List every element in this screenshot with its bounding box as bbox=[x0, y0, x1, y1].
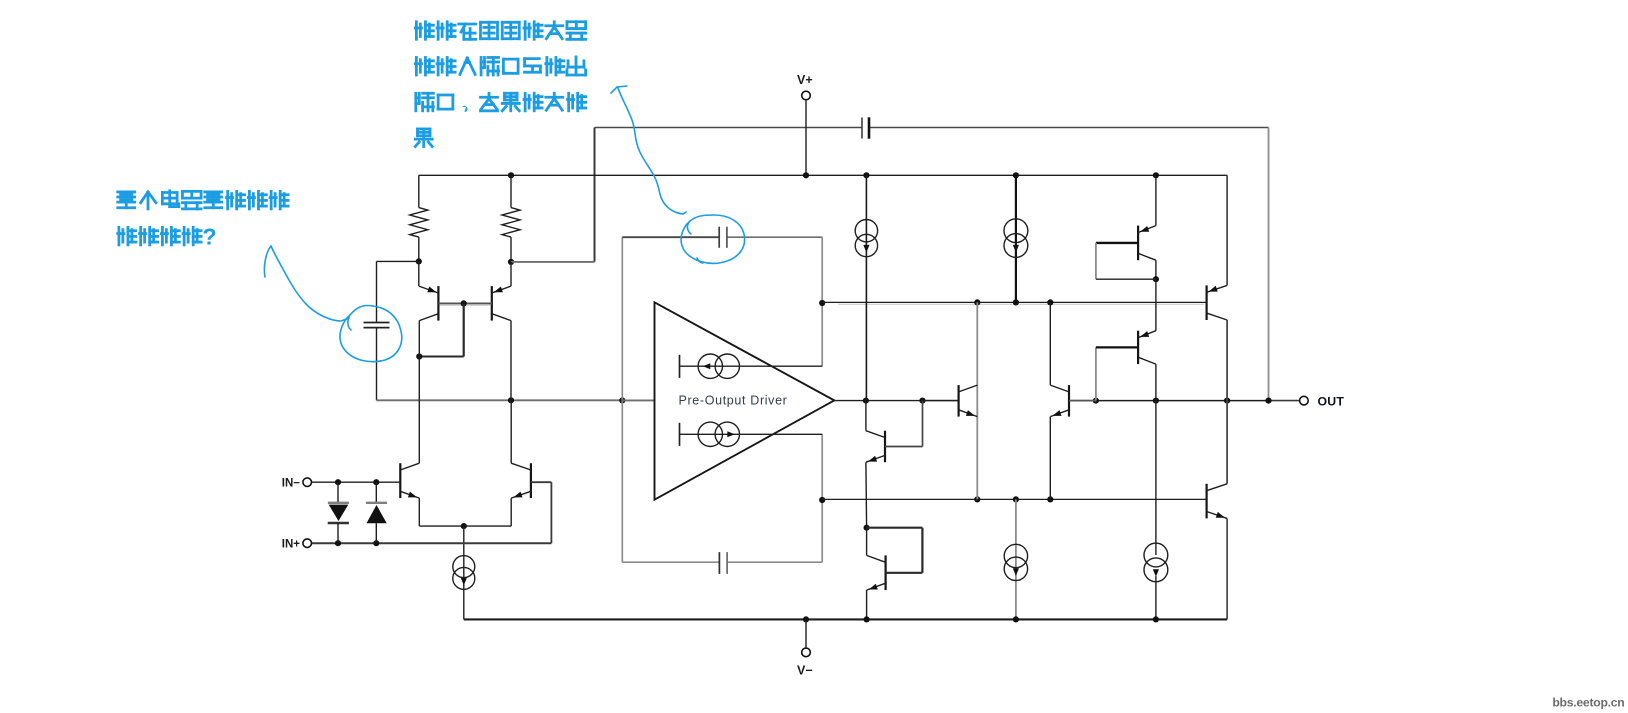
svg-text:bbs.eetop.cn: bbs.eetop.cn bbox=[1552, 696, 1624, 710]
svg-text:OUT: OUT bbox=[1318, 395, 1345, 409]
svg-text:Pre-Output Driver: Pre-Output Driver bbox=[679, 393, 788, 407]
svg-text:IN+: IN+ bbox=[282, 539, 301, 551]
svg-text:IN−: IN− bbox=[282, 478, 301, 490]
svg-text:V−: V− bbox=[797, 664, 813, 678]
svg-text:V+: V+ bbox=[797, 73, 813, 87]
svg-text:?: ? bbox=[203, 224, 217, 250]
